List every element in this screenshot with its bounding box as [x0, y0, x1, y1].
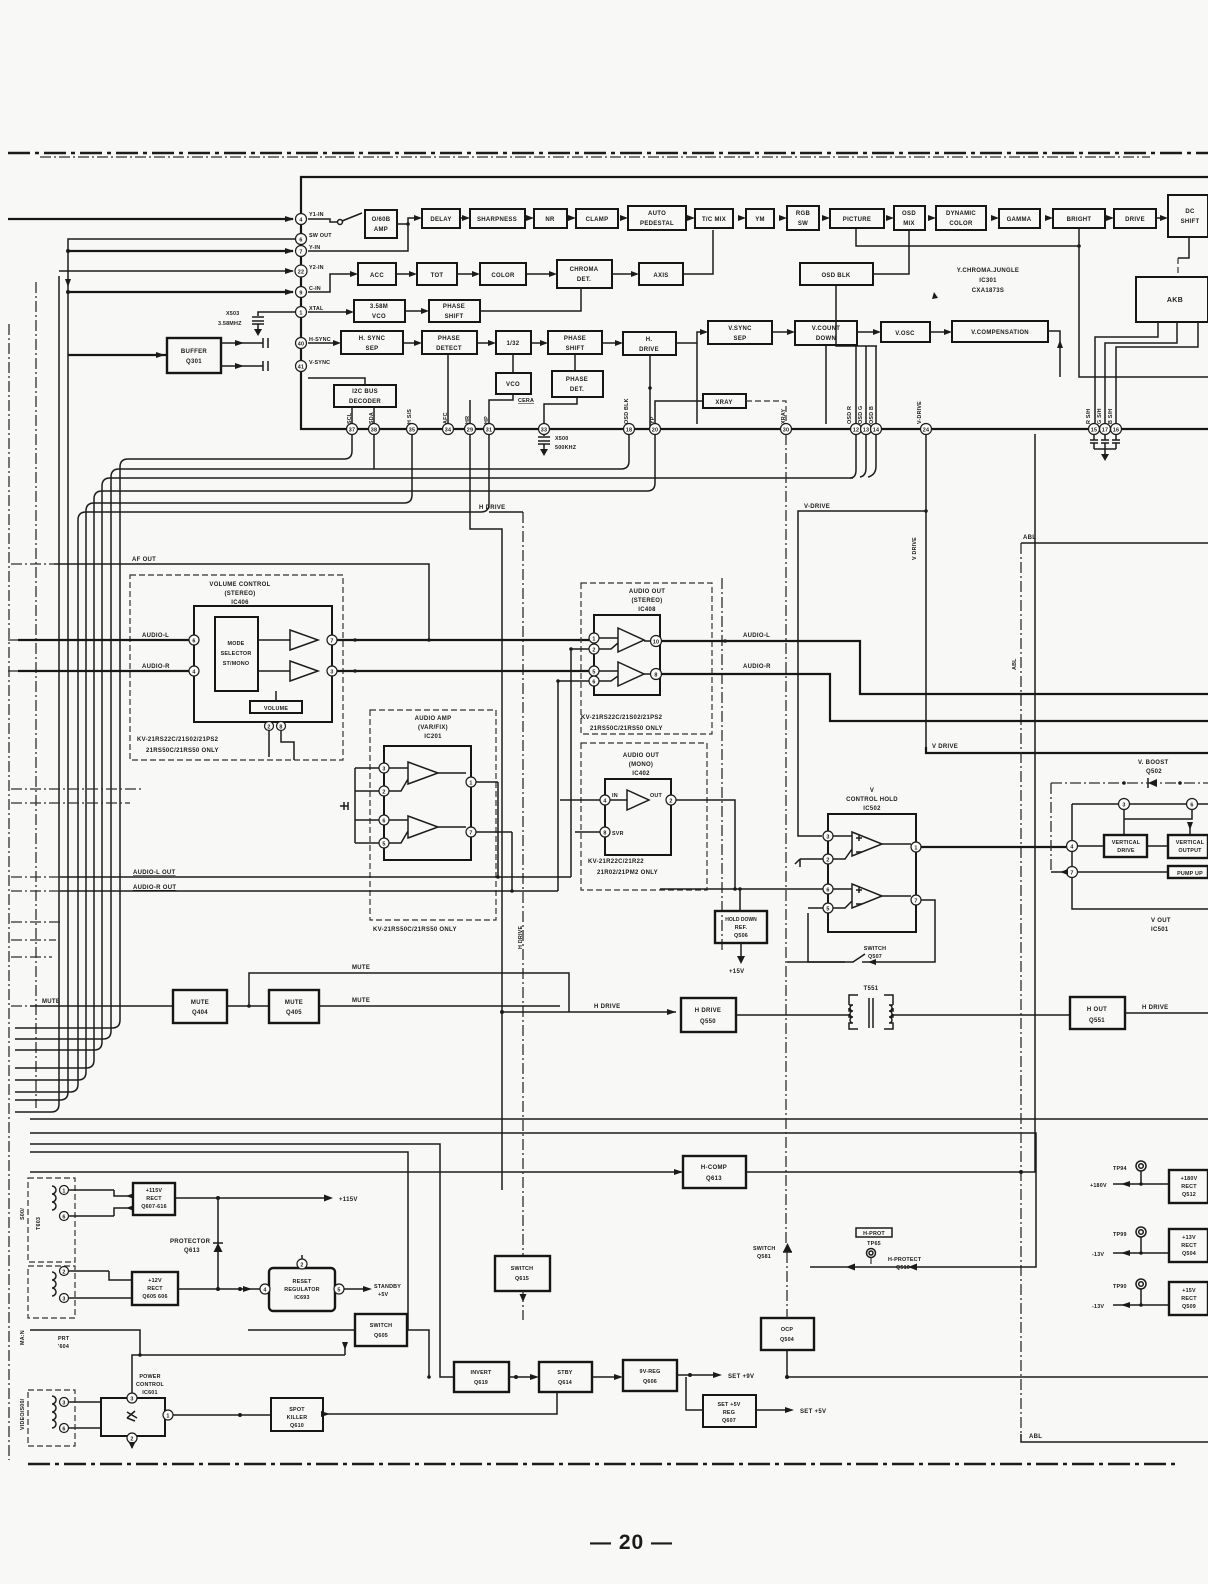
svg-text:ACC: ACC: [370, 273, 384, 279]
block DYNAMIC COLOR: [936, 206, 986, 230]
svg-text:3: 3: [1122, 803, 1125, 809]
svg-text:BRIGHT: BRIGHT: [1067, 217, 1092, 223]
node pin4 audio-r in: [189, 666, 199, 676]
svg-text:2: 2: [300, 1263, 303, 1269]
svg-text:CLAMP: CLAMP: [586, 217, 609, 223]
svg-text:+15V: +15V: [1182, 1288, 1196, 1294]
svg-text:AUDIO-R: AUDIO-R: [142, 664, 170, 670]
wire reset out standby: [344, 1288, 368, 1290]
node pin 4 Y1-IN: [296, 214, 307, 225]
svg-text:4: 4: [192, 670, 195, 676]
wire bus w2 spur pin38: [373, 434, 375, 469]
svg-text:MUTE: MUTE: [42, 999, 60, 1005]
wire buffer input: [68, 354, 167, 356]
svg-text:3.58MHZ: 3.58MHZ: [218, 321, 242, 327]
wire switch dashdot vertical x523: [522, 512, 524, 1256]
svg-text:HP: HP: [484, 416, 490, 424]
svg-text:R S/H: R S/H: [1086, 409, 1092, 424]
svg-text:6: 6: [826, 888, 829, 894]
svg-text:21RS50C/21RS50 ONLY: 21RS50C/21RS50 ONLY: [146, 748, 219, 754]
svg-text:PRT: PRT: [58, 1336, 70, 1342]
svg-text:Q614: Q614: [558, 1380, 572, 1386]
svg-text:MUTE: MUTE: [352, 965, 370, 971]
H drive Q550: [681, 998, 736, 1032]
wire right solid vertical x1035: [1034, 434, 1036, 1172]
amp O/60B: [365, 210, 397, 238]
svg-text:TOT: TOT: [431, 273, 444, 279]
svg-text:22: 22: [298, 270, 304, 276]
wire T551 to H OUT: [893, 1014, 1070, 1016]
H out Q551: [1070, 997, 1125, 1029]
svg-text:Y.CHROMA.JUNGLE: Y.CHROMA.JUNGLE: [957, 268, 1020, 274]
wire bus line w1 pin37: [15, 434, 352, 1028]
block RGB SW: [787, 206, 819, 230]
node pin 41 V-SYNC: [296, 361, 307, 372]
wire AUDIO-L OUT: [60, 876, 571, 878]
svg-text:SPOT: SPOT: [289, 1407, 305, 1413]
block OSD BLK: [800, 263, 873, 285]
svg-text:3: 3: [62, 1297, 65, 1303]
svg-text:OSD B: OSD B: [869, 406, 875, 424]
wire H.DRIVE to V.SYNC SEP: [676, 332, 700, 343]
coil winding upper: [52, 1186, 56, 1210]
pump up block: [1168, 866, 1208, 878]
block PHASE DET small: [552, 371, 603, 397]
block COLOR: [480, 263, 526, 285]
block BRIGHT: [1053, 209, 1105, 228]
svg-text:SET +9V: SET +9V: [728, 1374, 754, 1380]
svg-text:H DRIVE: H DRIVE: [695, 1008, 721, 1014]
arrow Y1-IN: [285, 216, 294, 222]
svg-text:DRIVE: DRIVE: [1117, 848, 1135, 854]
svg-text:AUTO: AUTO: [648, 211, 666, 217]
wire Y1-IN: [8, 218, 293, 220]
svg-text:15: 15: [1091, 428, 1097, 434]
node pin 40 H-SYNC: [296, 338, 307, 349]
svg-text:DOWN: DOWN: [816, 336, 836, 342]
wire phase shift to phase det: [574, 354, 576, 371]
wire hold down +15V: [740, 943, 742, 957]
svg-text:Q507: Q507: [868, 954, 882, 960]
svg-text:V DRIVE: V DRIVE: [912, 537, 918, 560]
svg-text:PUMP UP: PUMP UP: [1177, 871, 1203, 877]
wire BRIGHT down and right: [1079, 228, 1208, 377]
svg-text:AFC: AFC: [443, 412, 449, 424]
wire switch Q605 input: [248, 1329, 355, 1331]
svg-text:+180V: +180V: [1181, 1176, 1198, 1182]
svg-text:G S/H: G S/H: [1097, 408, 1103, 424]
wire IC502 pin1 output to vertical block: [921, 846, 1066, 848]
wire XRAY dashes: [746, 401, 786, 423]
svg-text:Q605: Q605: [374, 1333, 388, 1339]
svg-text:HR: HR: [465, 416, 471, 424]
svg-text:24: 24: [923, 428, 929, 434]
svg-text:Q613: Q613: [184, 1248, 200, 1254]
wire OSD R/G/B pins up: [856, 346, 876, 423]
svg-text:PHASE: PHASE: [438, 336, 460, 342]
svg-text:7: 7: [469, 831, 472, 837]
svg-text:OSD R: OSD R: [847, 406, 853, 424]
wire PICTURE bottom to BRIGHT vertical: [856, 228, 1079, 246]
block YM: [746, 209, 774, 228]
IC408 triangles: [599, 628, 644, 686]
wire IC502 pin6 input: [660, 888, 823, 890]
wire AUDIO-R out of IC408: [662, 674, 1208, 721]
svg-text:T551: T551: [864, 986, 879, 992]
svg-text:H-SYNC: H-SYNC: [309, 337, 331, 343]
wire Y2-IN: [59, 270, 293, 272]
svg-text:CONTROL: CONTROL: [136, 1382, 165, 1388]
IC201 inner box: [384, 746, 471, 860]
wire pin7 left stub to dashdot: [1050, 783, 1052, 872]
svg-text:(STEREO): (STEREO): [224, 591, 255, 597]
wire V-SYNC with capacitor: [221, 365, 263, 367]
block +15V RECT Q509: [1169, 1282, 1208, 1315]
svg-text:H-PROTECT: H-PROTECT: [888, 1257, 922, 1263]
wire Q550 to T551: [736, 1014, 849, 1016]
svg-text:V.COMPENSATION: V.COMPENSATION: [971, 330, 1029, 336]
svg-text:IC408: IC408: [638, 607, 656, 613]
svg-text:17: 17: [1102, 428, 1108, 434]
svg-text:SCL: SCL: [347, 412, 353, 424]
svg-text:VOLUME: VOLUME: [264, 706, 288, 712]
IC301 jungle block outline: [301, 177, 1208, 429]
svg-text:30: 30: [783, 428, 789, 434]
wire H.DRIVE down: [649, 355, 651, 429]
svg-text:21RS50C/21RS50 ONLY: 21RS50C/21RS50 ONLY: [590, 726, 663, 732]
IC201 pins right: [466, 777, 476, 787]
svg-text:V.COUNT: V.COUNT: [812, 326, 841, 332]
svg-text:IC693: IC693: [294, 1295, 309, 1301]
svg-text:6: 6: [62, 1427, 65, 1433]
block AUTO PEDESTAL: [628, 206, 686, 230]
svg-text:V.SYNC: V.SYNC: [728, 326, 752, 332]
wire SCL SDA pins: [352, 407, 374, 423]
svg-text:Y-IN: Y-IN: [309, 245, 320, 251]
block +180V RECT Q512: [1169, 1170, 1208, 1203]
vertical output block: [1168, 835, 1208, 858]
svg-text:1: 1: [469, 781, 472, 787]
svg-text:X500: X500: [555, 436, 568, 442]
svg-text:PHASE: PHASE: [443, 304, 465, 310]
wire DC SHIFT to AKB: [1178, 237, 1189, 258]
svg-text:3: 3: [330, 670, 333, 676]
wire SW-OUT: [68, 239, 295, 360]
svg-text:RECT: RECT: [1181, 1243, 1197, 1249]
svg-text:YM: YM: [755, 217, 765, 223]
svg-text:CHROMA: CHROMA: [570, 267, 599, 273]
wire power control pin1 to spot killer: [173, 1414, 271, 1416]
svg-text:Q605 606: Q605 606: [142, 1294, 167, 1300]
svg-text:Q607-616: Q607-616: [141, 1204, 167, 1210]
svg-text:IC601: IC601: [142, 1390, 157, 1396]
svg-text:REGULATOR: REGULATOR: [284, 1287, 319, 1293]
svg-text:H-PROT: H-PROT: [863, 1231, 885, 1237]
wire H DRIVE into Q550: [502, 1011, 676, 1013]
block 3.58M VCO: [354, 300, 405, 322]
svg-text:YP: YP: [650, 416, 656, 424]
block +13V RECT Q504: [1169, 1229, 1208, 1262]
svg-text:H DRIVE: H DRIVE: [1142, 1005, 1168, 1011]
svg-text:V. BOOST: V. BOOST: [1138, 760, 1169, 766]
mute Q405: [269, 990, 319, 1023]
block VCO small: [496, 373, 531, 394]
svg-text:SWITCH: SWITCH: [511, 1266, 533, 1272]
block PHASE SHIFT row3: [429, 300, 480, 322]
svg-text:IC501: IC501: [1151, 927, 1169, 933]
svg-text:7: 7: [914, 899, 917, 905]
IC502 pins right: [911, 842, 921, 852]
svg-text:INVERT: INVERT: [471, 1370, 492, 1376]
switch Q507 loop: [862, 900, 935, 962]
wire top rail pin3 pin6: [1072, 803, 1208, 805]
wire fixed inputs feed: [558, 649, 589, 891]
block +12V RECT: [132, 1272, 178, 1305]
svg-text:DECODER: DECODER: [349, 399, 381, 405]
svg-text:SDA: SDA: [369, 412, 375, 424]
svg-text:2: 2: [130, 1437, 133, 1443]
IC406 amp triangle R: [290, 661, 318, 681]
wire long horizontal L1: [30, 1118, 1208, 1120]
svg-text:Q405: Q405: [286, 1010, 302, 1016]
wire IC502 pin5 stub: [808, 907, 823, 909]
wire pin7 to delay node: [308, 224, 408, 251]
svg-text:9V-REG: 9V-REG: [640, 1369, 661, 1375]
wire set5v input: [686, 1377, 703, 1410]
wire V.COMP out: [1048, 331, 1060, 377]
svg-text:H DRIVE: H DRIVE: [518, 926, 524, 949]
wire IC201 outs to audio out lines: [476, 782, 512, 891]
block V.COMPENSATION: [952, 321, 1048, 342]
svg-text:SWITCH: SWITCH: [753, 1246, 775, 1252]
block DRIVE: [1114, 209, 1156, 228]
svg-text:OSD BLK: OSD BLK: [624, 398, 630, 424]
svg-text:ABL: ABL: [1012, 658, 1018, 670]
svg-text:BUFFER: BUFFER: [181, 349, 207, 355]
pin row circles: [347, 424, 1122, 435]
svg-text:MIX: MIX: [903, 221, 915, 227]
wire bus line w4 pin20: [15, 434, 655, 1068]
wire AF OUT: [54, 564, 429, 640]
xray rail diode into OCP: [783, 1243, 792, 1252]
svg-text:S00/: S00/: [20, 1208, 26, 1220]
svg-text:H. SYNC: H. SYNC: [359, 336, 386, 342]
svg-text:9: 9: [299, 291, 302, 297]
wire H DRIVE from pin29 down: [470, 434, 502, 1190]
svg-text:SW: SW: [798, 221, 808, 227]
svg-text:7: 7: [1070, 871, 1073, 877]
svg-text:4: 4: [299, 218, 302, 224]
wire H-protect line: [810, 1172, 1036, 1267]
svg-text:CXA1873S: CXA1873S: [972, 288, 1004, 294]
reset regulator IC693: [269, 1268, 335, 1311]
svg-text:KV-21RS22C/21S02/21PS2: KV-21RS22C/21S02/21PS2: [581, 715, 663, 721]
wire I2C to box edge: [308, 378, 365, 385]
svg-text:1: 1: [592, 637, 595, 643]
svg-text:1: 1: [166, 1414, 169, 1420]
svg-text:AUDIO-L: AUDIO-L: [743, 633, 770, 639]
svg-text:VERTICAL: VERTICAL: [1176, 840, 1205, 846]
svg-text:V-SYNC: V-SYNC: [309, 360, 330, 366]
block CHROMA DET.: [557, 260, 612, 288]
svg-text:DET.: DET.: [570, 387, 584, 393]
svg-text:34: 34: [445, 428, 451, 434]
wire AUDIO-R OUT: [60, 890, 558, 892]
wire vertical section left rail: [1072, 804, 1208, 909]
IC201 pins left: [379, 763, 389, 773]
svg-text:4: 4: [1070, 845, 1073, 851]
svg-text:8: 8: [654, 673, 657, 679]
block ACC: [358, 263, 396, 285]
svg-text:(STEREO): (STEREO): [631, 598, 662, 604]
svg-text:C-IN: C-IN: [309, 286, 321, 292]
svg-text:V DRIVE: V DRIVE: [932, 744, 958, 750]
block H. DRIVE: [623, 332, 676, 355]
wire H-COMP out: [746, 1171, 1036, 1173]
wire long horizontal L3: [30, 1144, 454, 1377]
svg-text:T/C MIX: T/C MIX: [702, 217, 726, 223]
svg-text:10: 10: [653, 640, 659, 646]
svg-text:7: 7: [299, 250, 302, 256]
svg-text:MUTE: MUTE: [285, 1000, 303, 1006]
wire bus line w6 pin31: [15, 434, 489, 1092]
IC406 amp triangle L: [290, 630, 318, 650]
svg-text:TP94: TP94: [1113, 1166, 1127, 1172]
svg-text:Q581: Q581: [757, 1254, 771, 1260]
svg-text:Q509: Q509: [1182, 1304, 1196, 1310]
svg-text:6: 6: [299, 238, 302, 244]
wire ABL net right: [1021, 542, 1208, 544]
page border left dash-dot outer: [8, 324, 10, 1460]
svg-text:TP90: TP90: [1113, 1284, 1127, 1290]
block XRAY: [703, 394, 746, 408]
svg-text:V-DRIVE: V-DRIVE: [804, 504, 830, 510]
wire bus line w3 OSD R/G/B: [15, 478, 853, 1050]
wire mute upper branch: [249, 973, 569, 1012]
block TOT: [417, 263, 457, 285]
svg-text:COLOR: COLOR: [949, 221, 973, 227]
svg-text:IC402: IC402: [632, 771, 650, 777]
crystal X503 wire: [258, 312, 295, 316]
svg-text:4: 4: [603, 799, 606, 805]
svg-text:V OUT: V OUT: [1151, 918, 1171, 924]
block H.SYNC SEP: [341, 331, 403, 354]
svg-text:SWITCH: SWITCH: [864, 946, 886, 952]
block GAMMA: [999, 209, 1040, 228]
svg-text:HOLD DOWN: HOLD DOWN: [725, 917, 757, 923]
wire switch Q615 bottom: [522, 1291, 524, 1320]
wire stby to 9v reg: [592, 1376, 615, 1378]
svg-text:AUDIO-R OUT: AUDIO-R OUT: [133, 885, 176, 891]
wire pin3 down to vertical drive: [1123, 810, 1125, 835]
svg-text:I2C BUS: I2C BUS: [352, 389, 378, 395]
IC402 pin8 SVR: [600, 827, 610, 837]
svg-text:DC: DC: [1185, 209, 1195, 215]
wire +115V out: [175, 1197, 330, 1199]
wire mute out: [319, 1005, 560, 1007]
svg-text:6: 6: [1190, 803, 1193, 809]
volume box: [250, 701, 302, 713]
svg-text:2: 2: [267, 725, 270, 731]
svg-text:OUT: OUT: [650, 793, 662, 799]
svg-text:VERTICAL: VERTICAL: [1112, 840, 1141, 846]
svg-text:2: 2: [826, 858, 829, 864]
transformer T551: [849, 986, 893, 1029]
wire C-IN: [68, 291, 293, 293]
svg-text:KV-21RS22C/21S02/21PS2: KV-21RS22C/21S02/21PS2: [137, 737, 219, 743]
wire mute input: [30, 1005, 173, 1007]
IC502 comparator triangles: [833, 832, 882, 908]
wire bus line w2 pin38/pin18: [15, 434, 629, 1039]
svg-text:TP99: TP99: [1113, 1232, 1127, 1238]
svg-text:5: 5: [337, 1288, 340, 1294]
wire AUDIO-R across to IC408: [337, 670, 589, 672]
volume control IC406 dashed box: [130, 575, 343, 760]
svg-text:Q550: Q550: [700, 1019, 716, 1025]
svg-text:3.58M: 3.58M: [370, 304, 388, 310]
svg-text:AUDIO OUT: AUDIO OUT: [629, 589, 665, 595]
block NR: [534, 209, 567, 228]
wire set5v out: [756, 1409, 790, 1411]
svg-text:DETECT: DETECT: [436, 346, 462, 352]
wire AFC pin up: [447, 354, 449, 423]
svg-text:XRAY: XRAY: [781, 409, 787, 424]
svg-text:1: 1: [914, 846, 917, 852]
wire 9v out SET +9V: [677, 1374, 714, 1376]
svg-text:31: 31: [486, 428, 492, 434]
svg-text:+12V: +12V: [148, 1278, 162, 1284]
svg-text:AUDIO OUT: AUDIO OUT: [623, 753, 659, 759]
svg-text:REG: REG: [723, 1410, 735, 1416]
wire bus w3 hooks to OSD pins: [850, 434, 876, 478]
wire 9V line to OCP vertical and right: [787, 1350, 1208, 1377]
svg-text:GAMMA: GAMMA: [1007, 217, 1032, 223]
svg-text:SEP: SEP: [366, 346, 379, 352]
svg-text:2: 2: [669, 799, 672, 805]
svg-text:MODE: MODE: [228, 641, 245, 647]
IC402 triangle: [610, 790, 649, 810]
svg-text:13: 13: [863, 428, 869, 434]
svg-text:3: 3: [826, 835, 829, 841]
block OSD MIX: [894, 206, 925, 230]
svg-text:40: 40: [298, 342, 304, 348]
svg-text:PEDESTAL: PEDESTAL: [640, 221, 674, 227]
svg-text:O/60B: O/60B: [372, 217, 391, 223]
svg-text:AXIS: AXIS: [653, 273, 668, 279]
svg-text:+115V: +115V: [146, 1188, 163, 1194]
svg-text:RECT: RECT: [1181, 1296, 1197, 1302]
svg-text:V: V: [870, 788, 874, 794]
node pin 6 SW OUT: [296, 234, 307, 245]
H-PROT TP65 test point: [856, 1228, 892, 1237]
audio amp IC201 dashed box: [370, 710, 496, 920]
svg-text:Q504: Q504: [780, 1337, 794, 1343]
svg-text:8: 8: [603, 831, 606, 837]
svg-text:IC301: IC301: [979, 278, 997, 284]
svg-text:7: 7: [330, 639, 333, 645]
svg-text:KV-21RS50C/21RS50 ONLY: KV-21RS50C/21RS50 ONLY: [373, 927, 457, 933]
svg-text:OSD: OSD: [902, 211, 916, 217]
wire AKB output G: [1105, 322, 1177, 423]
node connector pin row2: [60, 1212, 69, 1221]
svg-text:2: 2: [592, 648, 595, 654]
IC402 inner box: [605, 779, 671, 855]
svg-text:STANDBY: STANDBY: [374, 1284, 401, 1290]
IC201 triangles: [389, 762, 438, 843]
svg-text:SELECTOR: SELECTOR: [221, 651, 252, 657]
svg-text:IN: IN: [612, 793, 618, 799]
block DELAY: [422, 209, 460, 228]
